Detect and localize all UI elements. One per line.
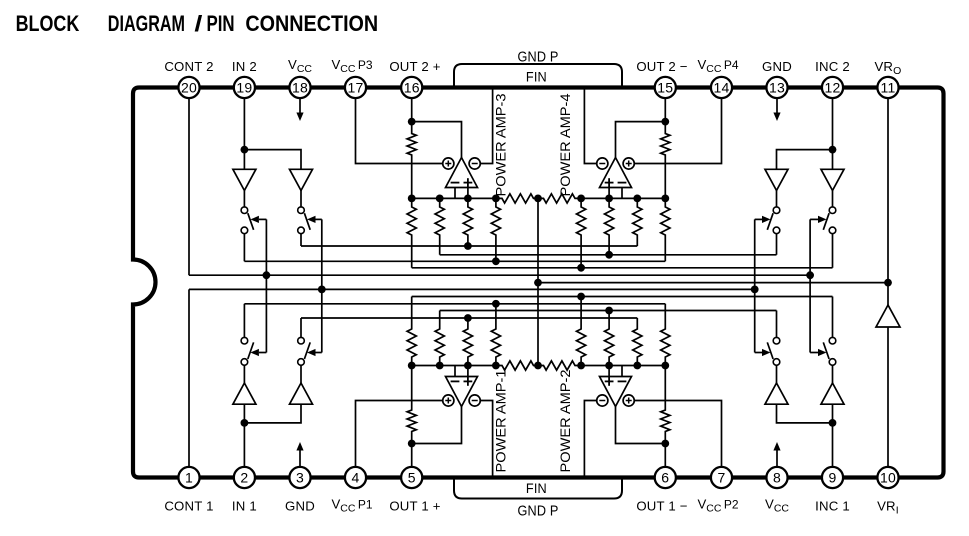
node L7-R2b <box>605 307 613 315</box>
resistor R1b <box>577 198 586 267</box>
svg-text:INC 1: INC 1 <box>815 499 850 514</box>
wire pin17 VCCP3 to amp3 + <box>356 88 443 164</box>
wire INC2 to first buffer <box>777 150 833 170</box>
op-amp U3 triangle <box>446 158 478 188</box>
wire OUT2- to amp4 output <box>616 122 666 158</box>
switch SW5 (bottom-left) contact b <box>241 337 248 344</box>
op-amp U4 - mark <box>618 182 627 184</box>
op-amp U2 - mark <box>618 380 627 382</box>
wire U4 - input to GND tab <box>584 88 596 164</box>
svg-text:OUT 1 +: OUT 1 + <box>389 499 440 514</box>
wire SW6 (bottom-left inner) from buffer <box>300 365 302 383</box>
resistor R2a <box>435 198 444 254</box>
wire OUT1- to amp2 output <box>616 406 666 444</box>
node rail top junction <box>534 195 542 203</box>
resistor pin6 feedback <box>661 366 670 444</box>
wire pin3 GND arrow <box>299 451 301 470</box>
resistor R3d <box>633 318 642 366</box>
op-amp U1 + mark <box>464 380 473 382</box>
pin 3 <box>289 467 310 488</box>
svg-text:GND P: GND P <box>518 504 559 520</box>
wire SW8 output <box>832 297 834 338</box>
svg-text:18: 18 <box>292 79 308 95</box>
wire center resistor tap <box>537 198 539 365</box>
wire SW3 output <box>776 234 778 255</box>
switch SW4 (top-right) blade <box>823 213 829 230</box>
wire IN1 to second buffer <box>244 404 301 423</box>
node rail top junction <box>605 195 613 203</box>
buffer A1 (top-left) <box>233 169 256 190</box>
wire pin20 CONT2 stem <box>188 88 190 276</box>
node L5-R1b <box>577 293 585 301</box>
node rail top junction <box>661 195 669 203</box>
node feed s2L on bus3 <box>318 286 326 294</box>
op-amp U3 - input circle <box>469 158 480 169</box>
wire SW7 (bottom-right inner) from buffer <box>776 365 778 383</box>
node IN2 junction <box>241 146 249 154</box>
switch SW8 (bottom-right) contact a <box>829 359 836 366</box>
wire arrow to SW7 <box>755 352 762 354</box>
switch SW4 (top-right) contact a <box>829 207 836 214</box>
resistor R1d <box>577 297 586 366</box>
svg-text:POWER AMP-3: POWER AMP-3 <box>494 94 509 197</box>
buffer A7 (bottom-right inner) <box>765 383 788 404</box>
svg-text:10: 10 <box>880 469 896 485</box>
pin 13 <box>766 77 787 98</box>
wire cross line L2 <box>440 254 777 256</box>
wire U1 base stub a <box>454 366 456 377</box>
buffer A2 (top-left inner) <box>290 169 313 190</box>
wire control feed s1L <box>265 219 267 352</box>
op-amp U3 - mark <box>451 182 460 184</box>
wire pin5 OUT1+ stem <box>411 444 413 478</box>
switch SW5 (bottom-left) contact a <box>241 359 248 366</box>
wire U4 base stub b <box>621 188 623 199</box>
buffer A4 (top-right) <box>821 169 844 190</box>
node rail bottom junction <box>492 362 500 370</box>
buffer A9 VR (right) <box>876 305 900 327</box>
switch SW2 (top-left inner) contact a <box>298 207 305 214</box>
wire SW7 output <box>776 311 778 338</box>
node L8-R3a <box>464 314 472 322</box>
svg-text:11: 11 <box>881 79 896 95</box>
buffer A8 (bottom-right) <box>821 383 844 404</box>
resistor R4c <box>491 304 500 366</box>
svg-text:FIN: FIN <box>526 69 547 85</box>
node INC2 junction <box>829 146 837 154</box>
wire INC2 to second buffer <box>832 150 834 170</box>
wire U4 base stub a <box>608 188 610 199</box>
resistor R4b <box>661 198 670 261</box>
wire IN1 to first buffer <box>243 404 245 423</box>
resistor rail top-left <box>496 194 538 203</box>
op-amp U2 + mark <box>605 380 614 382</box>
wire pin19 IN2 stem <box>243 88 245 150</box>
wire pin13 GND arrow <box>776 96 778 113</box>
wire arrow to SW3 <box>755 218 762 220</box>
svg-text:POWER AMP-2: POWER AMP-2 <box>558 370 573 473</box>
op-amp U4 - input circle <box>597 158 608 169</box>
wire U1 - input to GND tab <box>480 401 492 478</box>
resistor R3c <box>463 318 472 366</box>
pin 14 <box>711 77 732 98</box>
wire INC1 to second buffer <box>832 404 834 423</box>
wire pin11 VRO stem <box>887 88 889 306</box>
wire cross line L7 <box>440 310 777 312</box>
wire arrow to SW5 <box>259 352 267 354</box>
pin 18 <box>289 77 310 98</box>
svg-text:DIAGRAM: DIAGRAM <box>108 11 185 36</box>
svg-text:POWER AMP-4: POWER AMP-4 <box>558 93 573 196</box>
svg-text:17: 17 <box>348 79 364 95</box>
node rail top junction <box>577 195 585 203</box>
node L6-R4a <box>492 300 500 308</box>
node rail bottom junction <box>534 362 542 370</box>
node VR bus center <box>534 279 542 287</box>
wire U2 base stub a <box>608 366 610 377</box>
svg-text:/: / <box>194 11 202 36</box>
switch SW8 (bottom-right) blade <box>823 342 829 359</box>
wire pin8 VCC arrow <box>776 451 778 470</box>
wire bus CONT2 <box>189 274 810 276</box>
resistor pin16 feedback <box>407 122 416 199</box>
resistor pin5 feedback <box>407 366 416 444</box>
svg-text:20: 20 <box>181 79 197 95</box>
svg-text:19: 19 <box>236 79 252 95</box>
feedback rail top <box>412 197 496 199</box>
node feed s1R on bus3 <box>751 286 759 294</box>
node L1-R3a <box>464 242 472 250</box>
svg-text:3: 3 <box>296 469 304 485</box>
switch SW6 (bottom-left inner) contact a <box>298 359 305 366</box>
node rail bottom junction <box>661 362 669 370</box>
wire U3 - input to GND tab <box>480 88 492 164</box>
switch SW3 (top-right inner) contact a <box>773 207 780 214</box>
pin 15 <box>655 77 676 98</box>
svg-text:OUT 2 +: OUT 2 + <box>389 59 440 74</box>
svg-text:GND: GND <box>285 499 315 514</box>
wire control feed s1R <box>754 219 756 352</box>
pin 20 <box>178 77 199 98</box>
svg-text:IN 1: IN 1 <box>232 499 257 514</box>
wire SW2 output <box>300 234 302 246</box>
wire rail bottom-right segment <box>581 365 665 367</box>
op-amp U4 + mark <box>605 182 614 184</box>
pin 5 <box>401 467 422 488</box>
node rail top junction <box>436 195 444 203</box>
svg-text:4: 4 <box>352 469 360 485</box>
svg-text:OUT 2 −: OUT 2 − <box>636 59 687 74</box>
wire SW5 output <box>243 304 245 338</box>
pin 19 <box>234 77 255 98</box>
svg-text:IN 2: IN 2 <box>232 59 257 74</box>
wire pin16 OUT2+ stem <box>411 88 413 122</box>
wire control feed s2R <box>809 219 811 352</box>
wire bus VR reference <box>538 282 888 284</box>
resistor pin15 feedback <box>661 122 670 199</box>
wire U2 base stub b <box>621 366 623 377</box>
op-amp U3 + mark <box>464 182 473 184</box>
wire cross line L6 <box>244 303 665 305</box>
switch SW3 (top-right inner) contact b <box>773 227 780 234</box>
wire U2 - input to GND tab <box>584 401 596 478</box>
pin 16 <box>401 77 422 98</box>
wire bus CONT1 <box>189 288 755 290</box>
wire SW6 output <box>300 318 302 337</box>
resistor rail top-right <box>538 194 581 203</box>
pin 10 <box>877 467 898 488</box>
wire pin6 OUT1- stem <box>664 444 666 478</box>
FIN tab top <box>454 64 622 88</box>
pin 12 <box>822 77 843 98</box>
svg-text:FIN: FIN <box>526 481 547 497</box>
wire U1 base stub b <box>467 366 469 377</box>
svg-text:7: 7 <box>718 469 726 485</box>
wire U3 base stub b <box>467 188 469 199</box>
svg-text:BLOCK: BLOCK <box>16 11 80 36</box>
node rail top junction <box>464 195 472 203</box>
wire arrow to SW8 <box>810 352 818 354</box>
wire pin7 VCCP2 to amp2 + <box>634 401 721 478</box>
wire SW1 (top-left) from buffer <box>243 191 245 207</box>
pin 9 <box>822 467 843 488</box>
wire IN2 to first buffer <box>243 150 245 170</box>
node L3-R4a <box>492 257 500 265</box>
switch SW7 (bottom-right inner) contact b <box>773 337 780 344</box>
wire pin1 CONT1 stem <box>188 289 190 477</box>
op-amp U1 + input circle <box>443 395 454 406</box>
wire pin14 VCCP4 to amp4 + <box>634 88 721 164</box>
svg-text:OUT 1 −: OUT 1 − <box>636 499 687 514</box>
wire SW8 (bottom-right) from buffer <box>832 365 834 383</box>
resistor R2b <box>605 198 614 254</box>
node IN1 junction <box>241 419 249 427</box>
node rail top junction <box>408 195 416 203</box>
wire VR buffer to pin10 <box>887 327 889 478</box>
IC body outline with left notch <box>133 88 944 478</box>
node OUT1- junction <box>661 440 669 448</box>
op-amp U2 + input circle <box>623 395 634 406</box>
svg-text:GND: GND <box>762 59 792 74</box>
wire SW2 (top-left inner) from buffer <box>300 191 302 207</box>
wire cross line L3 <box>244 260 665 262</box>
svg-text:GND P: GND P <box>518 49 559 65</box>
node VR reference junction <box>884 279 892 287</box>
pin 4 <box>345 467 366 488</box>
node rail bottom junction <box>464 362 472 370</box>
node rail bottom junction <box>408 362 416 370</box>
wire cross line L4 <box>412 267 833 269</box>
feedback rail bottom <box>412 365 496 367</box>
resistor R2c <box>435 311 444 366</box>
svg-text:12: 12 <box>825 79 841 95</box>
op-amp U1 triangle <box>446 377 478 407</box>
wire pin9 INC1 stem <box>832 423 834 478</box>
svg-text:POWER AMP-1: POWER AMP-1 <box>494 370 509 473</box>
resistor rail bottom-left <box>496 361 538 370</box>
node feed s1L on bus1 <box>263 271 271 279</box>
svg-text:INC 2: INC 2 <box>815 59 850 74</box>
node OUT2+ junction <box>408 118 416 126</box>
pin 2 <box>234 467 255 488</box>
svg-text:6: 6 <box>661 469 669 485</box>
wire pin4 VCCP1 to amp1 + <box>356 401 443 478</box>
pin 1 <box>178 467 199 488</box>
svg-text:5: 5 <box>408 469 416 485</box>
node feed s2R on bus1 <box>806 271 814 279</box>
svg-text:14: 14 <box>714 79 730 95</box>
resistor R4d <box>661 304 670 366</box>
switch SW6 (bottom-left inner) contact b <box>298 337 305 344</box>
wire pin18 VCC arrow <box>299 96 301 113</box>
wire pin2 IN1 stem <box>243 423 245 478</box>
pin 6 <box>655 467 676 488</box>
svg-text:13: 13 <box>769 79 785 95</box>
wire cross line L8 <box>301 317 637 319</box>
wire arrow to SW2 <box>316 218 322 220</box>
wire cross line L1 <box>301 245 637 247</box>
op-amp U2 triangle <box>600 377 632 407</box>
resistor R3b <box>633 198 642 246</box>
switch SW1 (top-left) contact a <box>241 207 248 214</box>
node L4-R1b <box>577 264 585 272</box>
FIN tab bottom <box>454 478 622 499</box>
op-amp U4 + input circle <box>623 158 634 169</box>
buffer A5 (bottom-left) <box>233 383 256 404</box>
wire IN2 to second buffer <box>244 150 301 170</box>
switch SW7 (bottom-right inner) contact a <box>773 359 780 366</box>
switch SW4 (top-right) contact b <box>829 227 836 234</box>
svg-text:9: 9 <box>829 469 837 485</box>
switch SW8 (bottom-right) contact b <box>829 337 836 344</box>
svg-text:16: 16 <box>404 79 420 95</box>
wire SW4 (top-right) from buffer <box>832 191 834 207</box>
resistor R1a <box>407 198 416 267</box>
svg-text:2: 2 <box>240 469 248 485</box>
switch SW2 (top-left inner) contact b <box>298 227 305 234</box>
wire SW1 output <box>243 234 245 262</box>
svg-text:PIN: PIN <box>207 11 235 36</box>
resistor R4a <box>491 198 500 261</box>
op-amp U1 - input circle <box>469 395 480 406</box>
node rail top junction <box>492 195 500 203</box>
wire pin12 INC2 stem <box>832 88 834 150</box>
pin 11 <box>877 77 898 98</box>
resistor R3a <box>463 198 472 246</box>
switch SW3 (top-right inner) blade <box>767 213 773 230</box>
node L2-R2b <box>605 251 613 259</box>
wire SW4 output <box>832 234 834 268</box>
wire OUT2+ to amp3 output <box>412 122 462 158</box>
pin 8 <box>766 467 787 488</box>
wire INC1 to first buffer <box>777 404 833 423</box>
switch SW1 (top-left) blade <box>248 213 254 230</box>
pin 7 <box>711 467 732 488</box>
node rail top junction <box>633 195 641 203</box>
node rail bottom junction <box>577 362 585 370</box>
svg-text:CONT 1: CONT 1 <box>164 499 213 514</box>
resistor rail bottom-right <box>538 361 581 370</box>
wire cross line L5 <box>412 296 833 298</box>
switch SW2 (top-left inner) blade <box>304 213 310 230</box>
wire arrow to SW1 <box>259 218 267 220</box>
wire SW3 (top-right inner) from buffer <box>776 191 778 207</box>
svg-text:8: 8 <box>773 469 781 485</box>
node OUT1+ junction <box>408 440 416 448</box>
svg-text:CONT 2: CONT 2 <box>164 59 213 74</box>
node rail bottom junction <box>633 362 641 370</box>
op-amp U1 - mark <box>451 380 460 382</box>
resistor R1c <box>407 297 416 366</box>
svg-text:15: 15 <box>657 79 673 95</box>
switch SW6 (bottom-left inner) blade <box>304 342 310 359</box>
switch SW5 (bottom-left) blade <box>248 342 254 359</box>
switch SW1 (top-left) contact b <box>241 227 248 234</box>
pin 17 <box>345 77 366 98</box>
node rail bottom junction <box>436 362 444 370</box>
node rail bottom junction <box>605 362 613 370</box>
wire U3 base stub a <box>454 188 456 199</box>
wire SW5 (bottom-left) from buffer <box>243 365 245 383</box>
op-amp U4 triangle <box>600 158 632 188</box>
wire arrow to SW4 <box>810 218 818 220</box>
wire pin15 OUT2- stem <box>664 88 666 122</box>
node INC1 junction <box>829 419 837 427</box>
wire control feed s2L <box>321 219 323 352</box>
buffer A3 (top-right inner) <box>765 169 788 190</box>
switch SW7 (bottom-right inner) blade <box>767 342 773 359</box>
op-amp U2 - input circle <box>597 395 608 406</box>
resistor R2d <box>605 311 614 366</box>
svg-text:CONNECTION: CONNECTION <box>245 11 378 36</box>
op-amp U3 + input circle <box>443 158 454 169</box>
wire OUT1+ to amp1 output <box>412 406 462 444</box>
svg-text:1: 1 <box>185 469 193 485</box>
buffer A6 (bottom-left inner) <box>290 383 313 404</box>
node OUT2- junction <box>661 118 669 126</box>
wire rail top-right segment <box>581 197 665 199</box>
wire arrow to SW6 <box>316 352 322 354</box>
